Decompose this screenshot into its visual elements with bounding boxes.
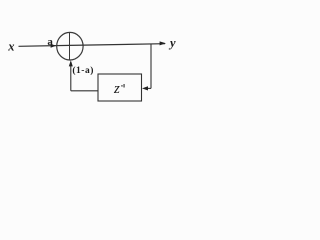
wire feedback tap down from output line <box>150 44 152 88</box>
cross vertical line inside summing junction <box>69 33 71 60</box>
wire delay box output to feedback riser <box>71 90 98 92</box>
arrowhead into delay box <box>142 86 148 90</box>
wire feedback into delay box right side <box>146 87 151 89</box>
wire feedback riser up to summing junction <box>70 62 72 91</box>
label z exponent digit 1 <box>124 84 125 88</box>
arrowhead output y <box>160 41 166 45</box>
arrowhead into summing junction <box>51 44 56 48</box>
wire main input line x to summing junction <box>19 44 70 47</box>
delay block z^-1 <box>98 74 142 101</box>
arrowhead into summing junction bottom <box>69 60 73 66</box>
svg-text:a: a <box>47 36 53 48</box>
svg-text:x: x <box>7 40 14 54</box>
svg-text:z: z <box>113 81 120 97</box>
svg-text:y: y <box>168 36 176 50</box>
wire summing junction to output y <box>70 44 166 46</box>
label z exponent minus <box>121 85 123 86</box>
summing junction circle <box>57 32 83 60</box>
svg-text:(1-a): (1-a) <box>72 65 94 76</box>
